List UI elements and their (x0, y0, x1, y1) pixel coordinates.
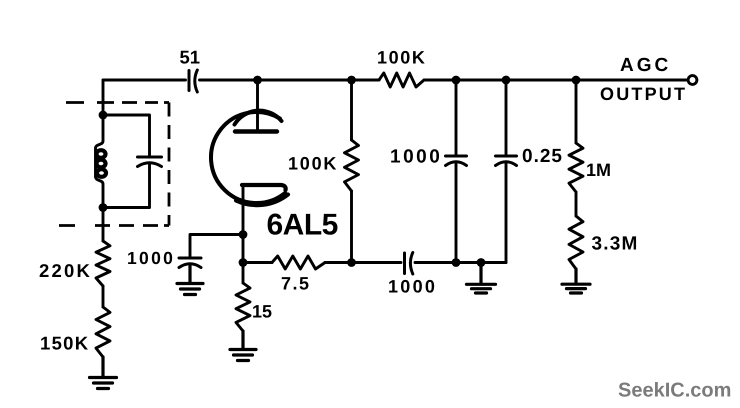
resistor R4 15 (236, 263, 250, 332)
transformer shield dashed box (59, 103, 169, 226)
svg-text:150K: 150K (40, 333, 89, 354)
svg-text:SeekIC.com: SeekIC.com (618, 380, 731, 402)
node A (99, 111, 108, 120)
svg-text:OUTPUT: OUTPUT (600, 84, 687, 104)
inductor L1 (96, 115, 107, 208)
node L (572, 76, 581, 85)
svg-text:1000: 1000 (388, 277, 437, 297)
tube V1 6AL5 envelope (211, 112, 285, 203)
resistor R5 7.5 (272, 256, 325, 269)
ground G1 (90, 357, 117, 389)
wire top bus left segment (103, 79, 186, 82)
tube V1 plate bar (bottom diode) (242, 185, 286, 190)
svg-text:220K: 220K (39, 260, 92, 281)
svg-text:1M: 1M (586, 160, 611, 180)
capacitor C6 0.25 (496, 80, 517, 263)
node F (347, 76, 356, 85)
node D (239, 230, 248, 239)
tube V1 cathode arc (top diode) (235, 111, 282, 125)
node J (477, 258, 486, 267)
ground G2 (177, 265, 203, 295)
ground G4 (467, 263, 496, 294)
resistor R6 100K vertical (345, 80, 359, 263)
wire top bus right segment (424, 79, 688, 82)
capacitor C4 1000 (bottom) (405, 253, 413, 275)
svg-text:0.25: 0.25 (522, 146, 563, 167)
capacitor C3 1000 (179, 258, 201, 268)
node K (502, 76, 511, 85)
node B (99, 203, 108, 212)
node E (239, 258, 248, 267)
tube V1 cathode lead (bottom) (242, 185, 245, 263)
svg-text:7.5: 7.5 (281, 274, 311, 294)
terminal AGC output (688, 76, 697, 85)
wire tank bottom (103, 164, 150, 208)
node I (452, 258, 461, 267)
wire bottom bus left (243, 261, 272, 264)
resistor R3 150K (96, 307, 110, 357)
svg-text:3.3M: 3.3M (592, 234, 639, 255)
tube V1 cathode arc (bottom diode) (236, 195, 288, 206)
capacitor C2 (tank) (138, 157, 162, 167)
resistor R8 3.3M (569, 216, 583, 269)
wire R7-R8 (575, 192, 578, 216)
tube V1 plate bar (top diode) (235, 129, 277, 133)
svg-text:51: 51 (180, 47, 201, 68)
svg-text:AGC: AGC (620, 55, 671, 76)
svg-text:15: 15 (252, 302, 272, 322)
wire top bus mid segment (200, 79, 380, 82)
svg-text:1000: 1000 (390, 147, 442, 168)
resistor R1 100K horizontal (379, 73, 424, 87)
ground G3 (230, 331, 256, 361)
wire bottom bus right (415, 261, 506, 264)
resistor R2 220K (96, 241, 110, 286)
svg-text:6AL5: 6AL5 (267, 209, 338, 242)
wire left drop (102, 80, 105, 115)
wire node D to C3 (190, 235, 243, 259)
node C (253, 76, 262, 85)
resistor R7 1M (569, 80, 583, 192)
capacitor C5 1000 (mid) (446, 80, 467, 263)
ground G5 (562, 269, 590, 293)
wire to R2 (102, 208, 105, 242)
tube V1 plate lead (top) (256, 80, 259, 132)
wire tank top (103, 115, 150, 157)
wire bottom bus mid (325, 261, 401, 264)
node H (452, 76, 461, 85)
wire R2-R3 (102, 286, 105, 307)
svg-text:100K: 100K (377, 48, 426, 68)
svg-text:1000: 1000 (127, 248, 175, 268)
node G (347, 258, 356, 267)
capacitor C1 51 (189, 70, 197, 92)
svg-text:100K: 100K (288, 154, 338, 174)
